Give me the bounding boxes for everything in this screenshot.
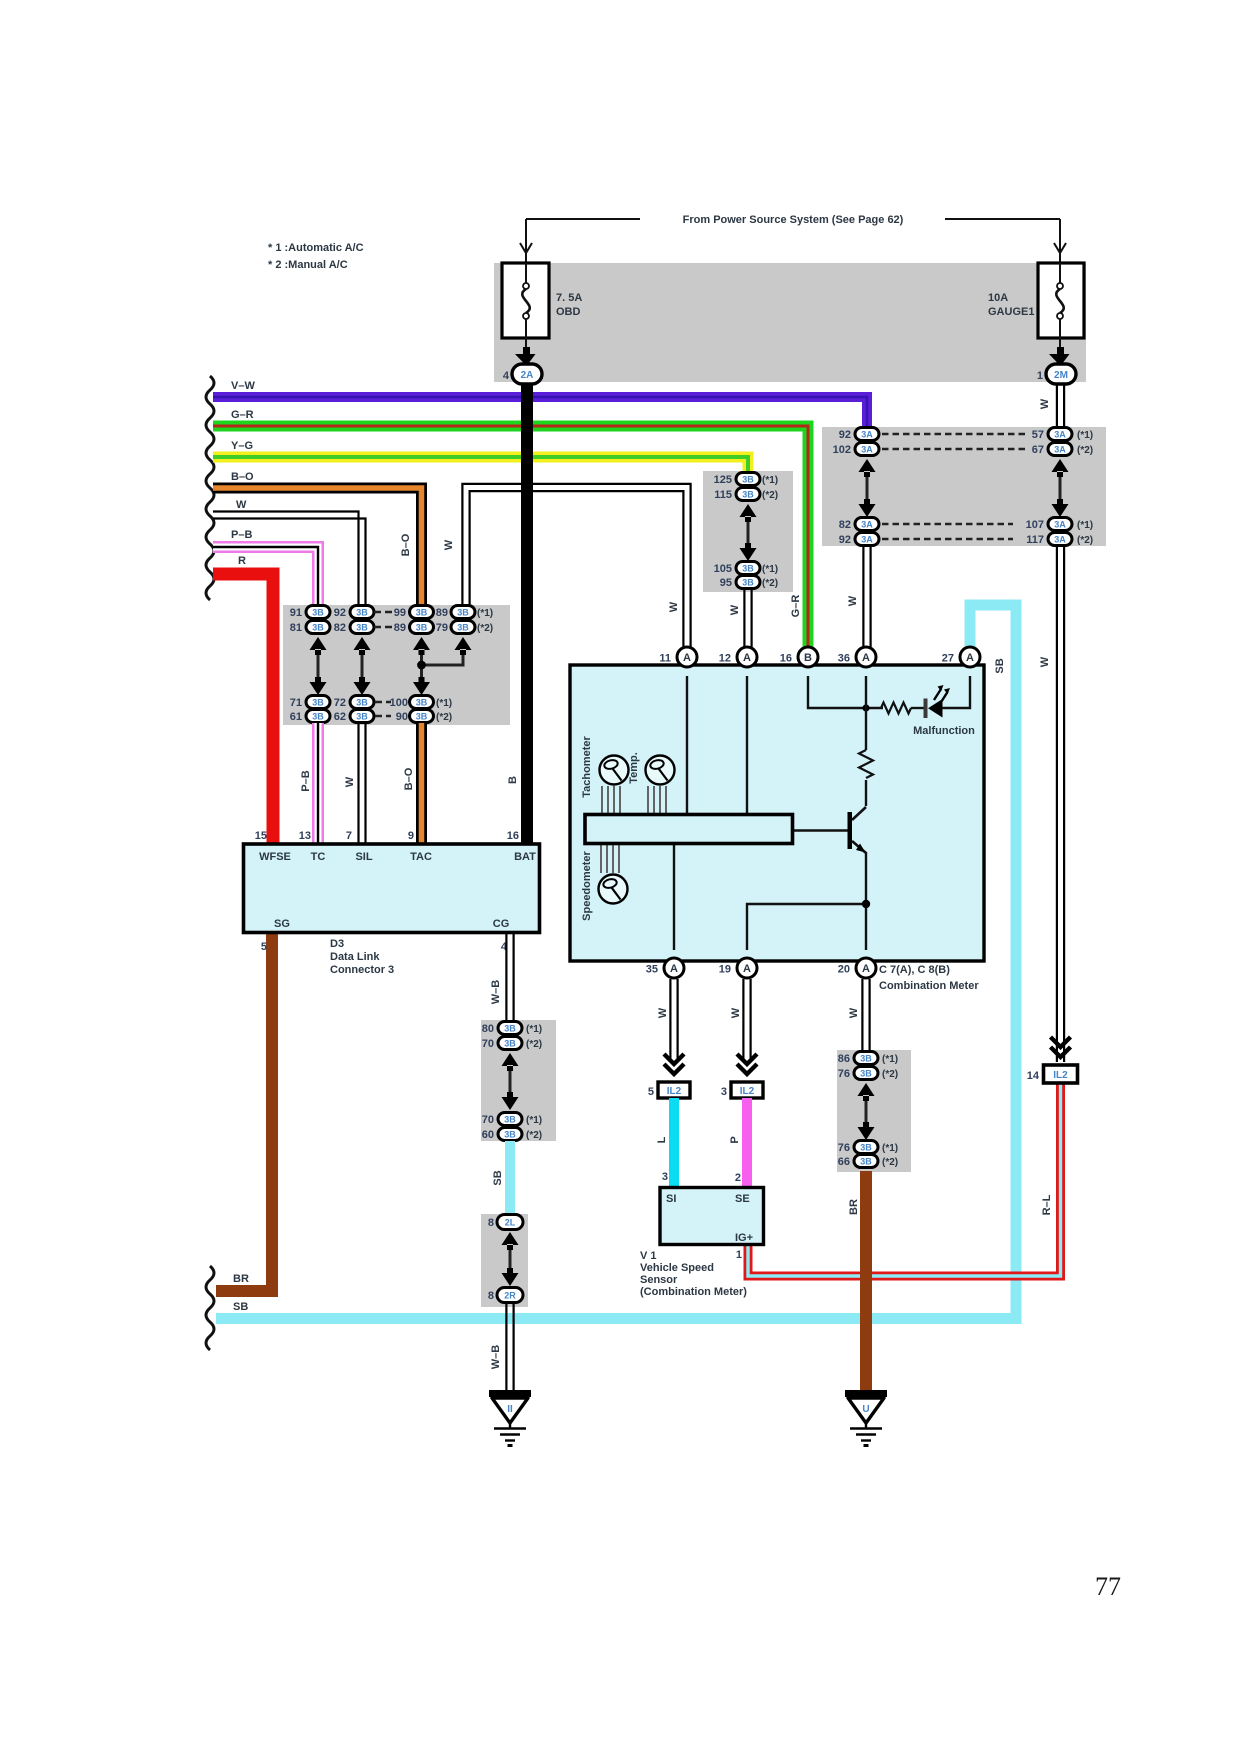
J1 dashes row1/row2 [374,612,392,627]
J1 dashes row3/row4 [375,702,391,716]
J5 connectors 80/70 (3B) [482,1022,522,1051]
wire SB J5 to J6 [505,1141,515,1215]
svg-text:3B: 3B [416,623,428,633]
temp gauge feed lines [648,786,666,814]
svg-text:3B: 3B [416,608,428,618]
svg-text:13: 13 [299,830,311,842]
J2 dashes rows 1-2 [882,434,1028,449]
svg-text:V 1: V 1 [640,1250,657,1262]
svg-text:3B: 3B [416,698,428,708]
svg-text:3B: 3B [860,1054,872,1064]
svg-text:3B: 3B [312,698,324,708]
svg-text:* 1 :Automatic A/C: * 1 :Automatic A/C [268,242,364,254]
J5 arrow up [502,1053,519,1071]
svg-text:CG: CG [493,918,510,930]
svg-text:2L: 2L [505,1218,516,1228]
svg-text:7. 5A: 7. 5A [556,292,582,304]
wire B (black) BAT from connector 2A to DLC3 BAT [521,384,533,844]
svg-text:92: 92 [839,429,851,441]
J4 connectors 86/76 (3B) [838,1052,878,1081]
J1 connectors 100/90 (3B) [390,696,434,724]
wire: power feed to OBD fuse [526,218,640,220]
svg-text:B–O: B–O [231,471,254,483]
block arrow into 2M [1049,347,1070,366]
svg-text:(*1): (*1) [1077,430,1093,441]
wire W J2 to meter pin 36 [863,546,870,647]
svg-text:A: A [862,652,870,664]
meter internal wire pin 35 to IC bar [673,845,675,950]
svg-text:Tachometer: Tachometer [581,736,593,798]
wire P (pink) 3 IL2 to VSS SE [742,1098,752,1187]
gray band: junction block J2 (right, 3A connectors) [822,427,1106,546]
J1 connectors 99/89 (3B) col B-O [394,606,434,635]
svg-text:W: W [443,539,455,550]
svg-text:3B: 3B [504,1039,516,1049]
svg-text:IL2: IL2 [740,1086,755,1097]
meter pin 35 (A) [664,958,684,978]
wire SB (sky blue) from meter pin 27 around to left harness [216,605,1016,1319]
svg-text:70: 70 [482,1038,494,1050]
svg-text:R–L: R–L [1041,1194,1053,1215]
wire transistor emitter to pin 20 [865,852,867,950]
wire LED to pin 27 [942,676,970,708]
svg-text:3B: 3B [504,1024,516,1034]
J2 connectors 92/102 (3A) left [833,428,879,457]
svg-text:P: P [729,1136,741,1143]
wire B-O J1 to DLC3 TAC [416,723,427,844]
J1 arrow down [354,677,371,695]
wire resistor to LED [911,707,925,709]
svg-text:Combination Meter: Combination Meter [879,980,979,992]
svg-text:90: 90 [396,711,408,723]
svg-text:L: L [656,1136,668,1143]
svg-text:(*2): (*2) [526,1039,542,1050]
svg-text:BR: BR [848,1199,860,1215]
J5 arrow down [502,1092,519,1110]
svg-text:SB: SB [994,658,1006,673]
J2 connectors 57/67 (3A) right [1032,428,1072,457]
svg-text:66: 66 [838,1156,850,1168]
speedometer gauge symbol [599,875,628,904]
wire resistor to transistor collector [865,780,867,806]
svg-text:80: 80 [482,1023,494,1035]
J4 arrow up [858,1083,875,1101]
wire: OBD fuse to connector 2A [525,338,527,352]
svg-text:(*2): (*2) [1077,535,1093,546]
transistor Q1 [793,807,867,853]
svg-text:95: 95 [720,577,732,589]
svg-text:89: 89 [436,607,448,619]
svg-text:36: 36 [838,653,850,665]
tachometer feed lines [602,786,620,814]
svg-text:3B: 3B [860,1069,872,1079]
gray band: junction block J5 (W-B column 3B connectors) [481,1020,556,1141]
J1 arrow up [354,637,371,655]
svg-text:W–B: W–B [490,1345,502,1370]
svg-text:3B: 3B [742,490,754,500]
svg-text:77: 77 [1095,1572,1121,1601]
svg-text:(*2): (*2) [882,1069,898,1080]
svg-text:2: 2 [735,1172,741,1184]
J3 connectors 105/95 (3B) [714,562,760,590]
svg-text:A: A [743,652,751,664]
svg-text:3B: 3B [356,712,368,722]
svg-text:115: 115 [714,489,732,501]
svg-text:P–B: P–B [300,770,312,791]
svg-text:W: W [1039,398,1051,409]
svg-text:(*1): (*1) [1077,520,1093,531]
svg-text:(*1): (*1) [526,1115,542,1126]
svg-text:5: 5 [261,941,267,953]
J1 connectors 72/62 (3B) [334,696,374,724]
combination meter box C7/C8 [570,665,984,961]
meter pin 12 (A) [737,647,757,667]
meter pin 36 (A) [856,647,876,667]
J1 arrow down [310,677,327,695]
svg-text:5: 5 [648,1086,654,1098]
svg-text:57: 57 [1032,429,1044,441]
J1 arrow up [413,637,430,655]
svg-text:SIL: SIL [355,851,372,863]
J1 connectors 92/82 (3B) col W [334,606,374,635]
svg-text:GAUGE1: GAUGE1 [988,306,1034,318]
svg-text:3B: 3B [860,1143,872,1153]
svg-text:Y–G: Y–G [231,440,253,452]
J4 stem [865,1096,868,1127]
J2 connectors 107/117 (3A) right lower [1026,518,1072,547]
J2 arrow down [859,499,876,517]
svg-text:92: 92 [839,534,851,546]
svg-text:3A: 3A [861,445,873,455]
svg-text:76: 76 [838,1142,850,1154]
svg-text:W: W [848,1007,860,1018]
block arrow into 2A [515,347,536,366]
J2 stem [866,472,869,505]
wire W meter pin 19 to 3 IL2 [743,979,750,1060]
svg-text:W: W [668,601,680,612]
wire B-O (black/orange) from harness to J1 col3 [213,488,422,605]
J6 stem [509,1245,512,1272]
svg-text:3B: 3B [742,475,754,485]
wire W J1 to DLC3 SIL [359,723,366,844]
svg-text:W: W [344,776,356,787]
speedometer feed lines [601,844,619,873]
meter internal wire pin 19 to emitter junction [747,904,866,950]
svg-text:3B: 3B [356,608,368,618]
svg-text:3B: 3B [860,1157,872,1167]
meter internal wire from pin 12 to IC bar [746,676,748,814]
wire V-W (violet) from harness to J2 [213,397,867,428]
svg-text:60: 60 [482,1129,494,1141]
J4 arrow down [858,1122,875,1140]
svg-text:3B: 3B [457,623,469,633]
svg-text:Vehicle Speed: Vehicle Speed [640,1262,714,1274]
svg-text:3A: 3A [1054,520,1066,530]
wire P-B J1 to DLC3 TC [312,723,324,844]
wire W J3 to meter pin 12 [744,589,751,647]
svg-text:G–R: G–R [231,409,254,421]
meter pin 11 (A) [677,647,697,667]
svg-text:71: 71 [290,697,302,709]
wire Y-G (yellow/green) from harness to J3 [213,457,748,474]
ground II (left) [489,1394,531,1446]
svg-text:SB: SB [233,1301,248,1313]
svg-text:IL2: IL2 [667,1086,682,1097]
J2 arrow up [859,459,876,477]
svg-text:(*2): (*2) [526,1130,542,1141]
wire W connector 2M down to J2 [1057,384,1064,427]
gray band: junction block J1 (left, 3B connectors) [283,605,510,725]
gray band: power source fuse strip [494,263,1086,382]
meter pin 20 (A) [856,958,876,978]
svg-text:105: 105 [714,563,732,575]
meter internal wire pin 16 to LED circuit [808,676,883,708]
J4 connectors 76/66 (3B) [838,1141,878,1169]
svg-text:3B: 3B [356,623,368,633]
J2 arrow up [1052,459,1069,477]
svg-text:SB: SB [492,1170,504,1185]
svg-text:Data Link: Data Link [330,951,380,963]
svg-text:102: 102 [833,444,851,456]
svg-text:(*2): (*2) [477,623,493,634]
svg-text:3B: 3B [504,1115,516,1125]
svg-text:BAT: BAT [514,851,536,863]
svg-text:1: 1 [1037,370,1043,382]
J5 connectors 70/60 (3B) [482,1113,522,1142]
svg-text:(*1): (*1) [436,698,452,709]
svg-text:W–B: W–B [490,980,502,1005]
svg-text:(*1): (*1) [762,475,778,486]
svg-text:R: R [238,555,246,567]
svg-text:4: 4 [503,370,510,382]
svg-text:3A: 3A [1054,535,1066,545]
svg-text:3: 3 [721,1086,727,1098]
J5 stem [509,1066,512,1097]
svg-text:2M: 2M [1054,370,1068,381]
wire P-B (pink/black) from harness to J1 col1 [213,547,318,605]
svg-text:3A: 3A [861,430,873,440]
connector 1 (2M) [1046,364,1076,384]
fuse F1 7.5A OBD [502,263,549,338]
J1 arrow down [413,677,430,695]
svg-text:3A: 3A [1054,430,1066,440]
svg-text:19: 19 [719,964,731,976]
J1 stem col [420,650,423,682]
wire: power feed to GAUGE1 fuse [945,218,1060,220]
J3 arrow up [740,504,757,522]
svg-text:(*2): (*2) [762,490,778,501]
svg-text:3B: 3B [416,712,428,722]
svg-text:3A: 3A [861,520,873,530]
svg-text:II: II [507,1404,513,1415]
fuse F2 10A GAUGE1 [1038,263,1084,338]
wire W-B J6 to ground [506,1303,513,1392]
svg-text:(*2): (*2) [762,578,778,589]
svg-text:16: 16 [507,830,519,842]
svg-text:61: 61 [290,711,302,723]
svg-text:3B: 3B [312,608,324,618]
svg-text:TC: TC [311,851,326,863]
wire harness continuation squiggle (left edge bottom) [206,1266,214,1350]
svg-text:Sensor: Sensor [640,1274,678,1286]
wire harness continuation squiggle (left edge top) [206,376,214,600]
svg-text:IL2: IL2 [1053,1070,1068,1081]
junction dot pin36/LED branch [862,704,869,711]
chevron arrow into 5 IL2 [664,1054,684,1074]
J2 connectors 82/92 (3A) left lower [839,518,879,547]
svg-text:1: 1 [736,1249,742,1261]
svg-text:79: 79 [436,622,448,634]
J1 arrow up col4 [455,637,472,655]
svg-text:82: 82 [334,622,346,634]
svg-text:(*1): (*1) [882,1054,898,1065]
svg-text:A: A [670,963,678,975]
vehicle speed sensor V1 box [660,1188,764,1245]
meter pin 27 (A) [960,647,980,667]
svg-text:WFSE: WFSE [259,851,291,863]
svg-text:3A: 3A [861,535,873,545]
svg-text:(*2): (*2) [436,712,452,723]
svg-text:10A: 10A [988,292,1008,304]
wire R-L (red/blue) from 14 IL2 to VSS IG+ [748,1083,1061,1276]
svg-text:Connector 3: Connector 3 [330,964,394,976]
svg-text:35: 35 [646,964,658,976]
J1 arrow up [310,637,327,655]
svg-text:8: 8 [488,1217,494,1229]
J1 connectors 89/79 (3B) col W2 [436,606,475,635]
svg-text:92: 92 [334,607,346,619]
J1 junction dot [417,661,426,670]
J1 stem col [317,650,320,682]
connector 14 IL2 [1044,1065,1078,1083]
svg-text:3B: 3B [742,564,754,574]
svg-text:3B: 3B [312,623,324,633]
chevron arrow into 14 IL2 [1051,1037,1071,1057]
IC bus bar [585,815,793,844]
svg-text:W: W [730,1007,742,1018]
chevron arrow into 3 IL2 [737,1054,757,1074]
J3 connectors 125/115 (3B) [714,473,760,502]
J6 connector 8 (2L) [488,1215,523,1230]
svg-text:D3: D3 [330,938,344,950]
svg-text:* 2 :Manual A/C: * 2 :Manual A/C [268,259,348,271]
wire BR (brown) from DLC3 SG to left harness [216,933,272,1291]
svg-text:A: A [743,963,751,975]
meter pin 16 (B) [798,647,818,667]
J6 arrow down [502,1268,519,1286]
wire BR (brown) from J4 to ground U [860,1171,872,1392]
svg-text:Malfunction: Malfunction [913,725,975,737]
svg-text:P–B: P–B [231,529,252,541]
svg-text:IG+: IG+ [735,1232,753,1244]
gray band: junction block J6 (2L/2R connectors) [481,1214,528,1307]
svg-text:7: 7 [346,830,352,842]
resistor (vertical) at transistor collector [859,750,873,778]
J1 stem col [361,650,364,682]
svg-text:(*1): (*1) [762,564,778,575]
svg-text:12: 12 [719,653,731,665]
svg-text:3A: 3A [1054,445,1066,455]
svg-text:91: 91 [290,607,302,619]
svg-text:70: 70 [482,1114,494,1126]
svg-text:86: 86 [838,1053,850,1065]
resistor (horizontal) in LED branch [881,703,911,714]
wire W meter pin 35 to 5 IL2 [670,979,677,1060]
svg-text:3B: 3B [504,1130,516,1140]
J3 stem [747,517,750,548]
svg-text:100: 100 [390,697,408,709]
gray band: junction block J4 (pin20 BR column 3B connectors) [837,1050,911,1172]
gray band: junction block J3 (Y-G column 3B connectors) [703,471,793,592]
arrowhead into OBD fuse [520,243,532,253]
svg-text:A: A [966,652,974,664]
ground U (right) [845,1394,887,1446]
svg-text:(*1): (*1) [477,608,493,619]
svg-text:125: 125 [714,474,732,486]
wire: GAUGE1 fuse to connector 2M [1059,338,1061,352]
svg-text:81: 81 [290,622,302,634]
connector 5 IL2 [658,1082,690,1098]
svg-text:99: 99 [394,607,406,619]
svg-text:2R: 2R [504,1291,516,1301]
svg-text:B–O: B–O [403,767,415,790]
svg-text:W: W [729,604,741,615]
svg-text:Speedometer: Speedometer [581,850,593,920]
J2 dashes rows 3-4 [882,524,1013,539]
svg-text:A: A [683,652,691,664]
svg-text:(Combination Meter): (Combination Meter) [640,1286,747,1298]
svg-text:76: 76 [838,1068,850,1080]
svg-text:W: W [657,1007,669,1018]
DLC3 Data Link Connector 3 box [244,844,540,933]
svg-text:(*2): (*2) [882,1157,898,1168]
connector 4 (2A) [512,364,542,384]
svg-text:2A: 2A [521,370,534,381]
svg-text:OBD: OBD [556,306,581,318]
svg-text:U: U [862,1404,869,1415]
svg-text:117: 117 [1026,534,1044,546]
svg-text:27: 27 [942,653,954,665]
svg-text:SE: SE [735,1193,750,1205]
wire L (blue) 5 IL2 to VSS SI [669,1098,679,1187]
svg-text:G–R: G–R [790,595,802,618]
svg-text:(*1): (*1) [882,1143,898,1154]
svg-text:A: A [862,963,870,975]
svg-text:SG: SG [274,918,290,930]
svg-text:82: 82 [839,519,851,531]
svg-text:SI: SI [666,1193,676,1205]
svg-text:C 7(A), C 8(B): C 7(A), C 8(B) [879,964,950,976]
svg-text:W: W [1039,656,1051,667]
svg-text:16: 16 [780,653,792,665]
junction dot on emitter [862,900,870,908]
svg-text:9: 9 [408,830,414,842]
svg-text:Temp.: Temp. [628,752,640,784]
svg-text:BR: BR [233,1273,249,1285]
svg-text:From Power Source System (See: From Power Source System (See Page 62) [683,214,904,226]
svg-text:3B: 3B [742,578,754,588]
LED malfunction indicator (points left) [926,685,951,718]
svg-text:V–W: V–W [231,380,255,392]
svg-text:3: 3 [662,1171,668,1183]
J2 stem [1059,472,1062,505]
J3 arrow down [740,543,757,561]
wire W (white) from harness to J1 col2 [213,512,366,606]
svg-text:TAC: TAC [410,851,432,863]
wire W J2 right col down to 14 IL2 [1057,546,1064,1062]
svg-text:72: 72 [334,697,346,709]
arrowhead into GAUGE1 fuse [1054,243,1066,253]
